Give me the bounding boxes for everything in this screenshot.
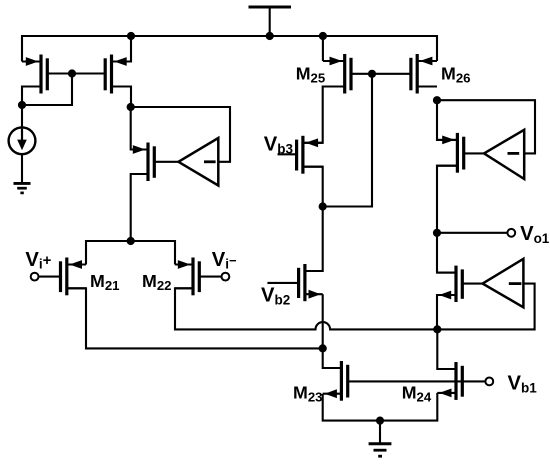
node M26 drain [433,96,441,104]
node on rail above M25 [319,32,327,40]
wire current source to ground [21,154,23,183]
transistor M21 [39,258,86,296]
label M21 [90,271,119,293]
label Vi+ [25,249,51,272]
wire node to current source [21,105,23,127]
node ground junction [376,417,384,425]
node tail [127,237,135,245]
node Vo1 (output) [433,229,441,237]
wire gate line M23-M24 to Vb1 [348,380,486,382]
wire node A to cascode drain [131,107,148,150]
svg-text:Vi−: Vi− [212,249,237,272]
node mirror-left drain [18,101,26,109]
transistor Vb2 cascode [267,264,322,301]
label M23 [293,383,322,405]
wire node C to M24 drain [437,329,456,369]
label M26 [441,63,470,85]
wire VDD rail (top) [22,36,437,62]
svg-text:Vb1: Vb1 [508,373,538,396]
wire mirror-right drain down [112,87,132,108]
svg-text:Vb2: Vb2 [261,285,290,308]
wire M23 source to ground node [323,394,380,421]
svg-text:M24: M24 [402,383,432,405]
transistor PMOS mirror left (diode-connected) [22,55,72,94]
wire booster A3 feedback [437,284,534,330]
wire M21 drain to node B [67,288,323,348]
node M25-M26 gate [368,70,376,78]
wire node D to Vb2 drain [305,207,323,272]
svg-text:Vi+: Vi+ [25,249,51,272]
transistor M23 [323,361,348,401]
wire M26 drain to upper cascode [437,100,457,140]
transistor cascode (left, boosted) [131,143,179,182]
terminal Vi- [222,273,230,281]
wire cascode source down to tail node [131,174,148,241]
svg-text:M21: M21 [90,271,119,293]
label M24 [402,383,432,405]
node D [319,202,327,210]
label M25 [296,63,325,85]
wire M22 drain to node C (with hop) [175,288,437,329]
transistor M25 [323,54,372,94]
svg-text:M26: M26 [441,63,470,85]
svg-text:Vo1: Vo1 [520,223,550,246]
wire output to terminal [437,232,507,234]
wire M25 drain to Vb3 cascode [303,87,345,143]
svg-text:M22: M22 [142,271,171,293]
wire gate-drain tie of mirror [22,74,72,106]
op-amp A1 (booster, left) [178,138,218,186]
wire ground stub [379,421,381,443]
wire mirror-right source to rail [112,36,132,62]
terminal Vi+ [31,273,39,281]
wire booster A1 feedback (node A to amp input) [131,107,230,162]
wire cascode source to node C [437,295,456,329]
wire booster A2 feedback [437,100,535,153]
transistor M26 [372,54,437,94]
node on rail above mirror right [127,32,135,40]
wire cascode source to output node [437,166,457,233]
node C [433,325,441,333]
label Vo1 [520,223,550,246]
ground (left) [14,183,31,193]
op-amp A2 (booster, upper right) [484,130,524,179]
ground (bottom) [369,444,392,456]
op-amp A3 (booster, lower right) [483,259,524,308]
transistor M24 [437,362,462,400]
node A (mirror-right drain) [127,103,135,111]
svg-text:Vb3: Vb3 [264,134,294,157]
wire node B to M23 drain [323,348,342,368]
wire M25 source from rail [322,36,324,61]
svg-text:M23: M23 [293,383,322,405]
transistor cascode (lower right, boosted) [437,266,483,302]
wire M24 source to ground node [380,393,437,421]
node B [319,344,327,352]
label Vb3 bias [264,134,294,157]
svg-text:M25: M25 [296,63,325,85]
wire output node to lower cascode drain [437,233,456,273]
wire mirror-left drain to node [22,87,41,106]
power supply VDD T-symbol [249,7,292,36]
label Vi- [212,249,237,272]
label M22 [142,271,171,293]
transistor cascode (upper right, boosted) [437,133,484,173]
transistor M22 [175,258,221,296]
transistor Vb3 cascode [278,136,323,174]
terminal Vb1 [485,378,493,386]
terminal Vo1 [507,229,515,237]
wire tail rail of input pair [86,241,175,265]
label Vb1 bias [508,373,538,396]
transistor PMOS mirror right [72,55,131,94]
node mirror gate [68,69,76,77]
wire Vb2 source to node B [322,294,324,348]
wire gate bias of M25/M26 from node D [323,74,372,207]
node on rail at supply stub [266,32,274,40]
wire Vb3 source to node D [303,167,323,207]
label Vb2 bias [261,285,290,308]
current source I1 [9,127,36,154]
